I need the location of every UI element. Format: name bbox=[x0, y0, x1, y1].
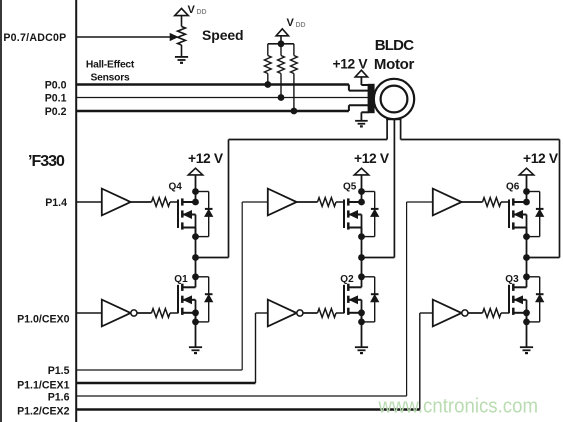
transistor Q5 body arrow bbox=[350, 211, 358, 218]
svg-text:BLDC: BLDC bbox=[375, 37, 414, 54]
node Q2 source junction bbox=[358, 309, 365, 316]
motor connector block bbox=[368, 84, 375, 113]
node Q4 diode join bbox=[192, 233, 199, 240]
wire gate resistor RQ4 to gate bbox=[170, 201, 178, 203]
buffer U2 bbox=[268, 189, 297, 216]
wire inverter U6 output bbox=[468, 312, 483, 314]
body diode of Q1 cathode bar bbox=[205, 293, 213, 295]
transistor Q5 drain stub bbox=[348, 201, 361, 203]
transistor Q5 gate bar bbox=[343, 200, 345, 229]
+12V symbol (bridge of Q5) bbox=[354, 168, 368, 175]
transistor Q2 body stub bbox=[348, 299, 361, 301]
wire P1.2/CEX2 horizontal bbox=[76, 408, 420, 410]
svg-text:Speed: Speed bbox=[202, 27, 244, 43]
node bridge midpoint (Q6/Q3) bbox=[523, 254, 530, 261]
wire P1.1 to inverter U5 bbox=[256, 312, 268, 314]
gate resistor RQ2 bbox=[318, 309, 337, 318]
wire P1.6 to buffer U3 bbox=[407, 201, 433, 203]
node Q5 diode tap bbox=[358, 188, 365, 195]
wire motor phase A drop bbox=[386, 117, 388, 139]
wire to gate resistor RQ3 bbox=[468, 312, 483, 314]
wire midpoint to Q1 drain bbox=[195, 258, 197, 288]
BLDC motor outer circle bbox=[374, 79, 414, 119]
transistor Q6 drain stub bbox=[513, 201, 526, 203]
inverter U5 bbox=[268, 300, 297, 327]
body diode of Q4 vertical bbox=[208, 192, 210, 237]
transistor Q2 gate bar bbox=[343, 285, 345, 314]
wire P0.0 step down bbox=[348, 85, 350, 91]
wire phase C to bridge 3 midpoint bbox=[559, 140, 561, 258]
svg-text:V: V bbox=[188, 4, 196, 16]
wire phase C horizontal bbox=[401, 139, 560, 141]
transistor Q5 channel segments bbox=[347, 198, 350, 205]
node R2/P0.0 bbox=[264, 81, 271, 88]
wire P1.0/CEX0 to inverter U4 bbox=[76, 312, 101, 314]
wire to gate resistor RQ5 bbox=[297, 201, 318, 203]
node Q1 diode join bbox=[192, 319, 199, 326]
wire R2 to P0.0 bbox=[267, 74, 269, 85]
wire gate resistor RQ1 to gate bbox=[170, 312, 178, 314]
svg-text:DD: DD bbox=[296, 22, 306, 29]
transistor Q3 source-side vertical bbox=[526, 300, 528, 322]
transistor Q2 source stub bbox=[348, 312, 361, 314]
MCU 'F330 left border bbox=[0, 0, 2, 422]
svg-text:P1.5: P1.5 bbox=[48, 365, 70, 377]
body diode of Q3 triangle bbox=[536, 295, 544, 302]
+12V symbol (motor) bbox=[355, 70, 367, 77]
body diode of Q5 cathode bar bbox=[371, 208, 379, 210]
wire buffer U3 output bbox=[462, 201, 483, 203]
node Q6 diode join bbox=[523, 233, 530, 240]
wire +12V to Q6 drain bbox=[526, 175, 528, 202]
transistor Q6 channel segments bbox=[512, 198, 515, 205]
node Q1 source junction bbox=[192, 309, 199, 316]
body diode of Q3 top branch bbox=[527, 276, 540, 278]
wire P0.2 step up bbox=[348, 105, 350, 111]
wiper arrowhead bbox=[170, 34, 177, 41]
node bridge midpoint (Q5/Q2) bbox=[358, 254, 365, 261]
buffer U1 bbox=[102, 189, 131, 216]
node Q3 diode join bbox=[523, 319, 530, 326]
wire Q1 source to ground bbox=[195, 313, 197, 347]
body diode of Q2 cathode bar bbox=[371, 293, 379, 295]
wire gate resistor RQ2 to gate bbox=[336, 312, 344, 314]
svg-text:www.cntronics.com: www.cntronics.com bbox=[378, 395, 538, 418]
node R4/P0.2 bbox=[291, 108, 298, 115]
wire Q2 source to ground bbox=[361, 313, 363, 347]
wire +12V to connector bbox=[360, 77, 362, 85]
pull-up bus wire bbox=[268, 43, 294, 45]
wire gate resistor RQ6 to gate bbox=[501, 201, 509, 203]
body diode of Q2 top branch bbox=[362, 276, 375, 278]
inverter U4 bbox=[102, 300, 131, 327]
resistor R2 (P0.0 pull-up) bbox=[264, 56, 271, 74]
wire P1.5 riser bbox=[241, 202, 243, 370]
svg-text:Q1: Q1 bbox=[174, 274, 188, 285]
transistor Q5 body stub bbox=[348, 214, 361, 216]
transistor Q1 source stub bbox=[182, 312, 195, 314]
svg-text:+12 V: +12 V bbox=[523, 151, 559, 166]
wire P1.2 to inverter U6 bbox=[420, 312, 433, 314]
transistor Q5 source stub bbox=[348, 227, 361, 229]
Vdd symbol above speed pot bbox=[175, 8, 189, 15]
svg-text:P0.0: P0.0 bbox=[45, 80, 67, 92]
body diode of Q3 vertical bbox=[539, 277, 541, 322]
body diode of Q2 bottom branch bbox=[362, 321, 375, 323]
node Q6 diode tap bbox=[523, 188, 530, 195]
transistor Q6 body stub bbox=[513, 214, 526, 216]
wire bridge 3 midpoint horizontal bbox=[527, 257, 560, 259]
body diode of Q5 vertical bbox=[374, 192, 376, 237]
wire P0.2 hall sensor C bbox=[76, 110, 349, 112]
wire phase A to bridge 1 midpoint bbox=[228, 140, 230, 258]
wire midpoint to Q2 drain bbox=[361, 258, 363, 288]
body diode of Q6 cathode bar bbox=[536, 208, 544, 210]
svg-text:+12 V: +12 V bbox=[333, 56, 369, 71]
transistor Q2 drain stub bbox=[348, 286, 361, 288]
wire P1.1 riser bbox=[255, 313, 257, 383]
ground (speed pot) bbox=[175, 56, 188, 58]
potentiometer R1 (speed) bbox=[178, 27, 186, 46]
wire gate resistor RQ3 to gate bbox=[501, 312, 509, 314]
wire P1.4 to buffer U1 bbox=[76, 201, 101, 203]
resistor R3 (P0.1 pull-up) bbox=[278, 56, 285, 74]
transistor Q6 gate bar bbox=[508, 200, 510, 229]
node Vdd pull-up junction bbox=[278, 40, 285, 47]
buffer U3 bbox=[433, 189, 462, 216]
transistor Q4 body stub bbox=[182, 214, 195, 216]
transistor Q1 body stub bbox=[182, 299, 195, 301]
wire midpoint to Q3 drain bbox=[526, 258, 528, 288]
wire to resistor R4 bbox=[293, 44, 295, 56]
+12V symbol (bridge of Q4) bbox=[188, 168, 202, 175]
transistor Q4 gate bar bbox=[177, 200, 179, 229]
wire to gate resistor RQ6 bbox=[462, 201, 483, 203]
transistor Q4 source stub bbox=[182, 227, 195, 229]
transistor Q4 channel segments bbox=[181, 198, 184, 205]
gate resistor RQ3 bbox=[483, 309, 502, 318]
body diode of Q4 top branch bbox=[196, 191, 209, 193]
transistor Q1 gate bar bbox=[177, 285, 179, 314]
svg-text:V: V bbox=[287, 17, 295, 29]
body diode of Q4 triangle bbox=[205, 210, 213, 217]
svg-text:Hall-Effect: Hall-Effect bbox=[86, 59, 135, 70]
wire gate resistor RQ5 to gate bbox=[336, 201, 344, 203]
inverter U6 bbox=[433, 300, 462, 327]
body diode of Q2 triangle bbox=[371, 295, 379, 302]
svg-text:Motor: Motor bbox=[374, 56, 415, 73]
transistor Q2 channel segments bbox=[347, 284, 350, 291]
body diode of Q6 top branch bbox=[527, 191, 540, 193]
MCU 'F330 right border bbox=[75, 0, 77, 422]
node Q5 diode join bbox=[358, 233, 365, 240]
transistor Q1 drain stub bbox=[182, 286, 195, 288]
svg-text:P1.4: P1.4 bbox=[45, 197, 67, 209]
transistor Q1 body arrow bbox=[184, 296, 192, 303]
body diode of Q5 bottom branch bbox=[362, 236, 375, 238]
node Q2 diode tap bbox=[358, 273, 365, 280]
svg-text:P0.1: P0.1 bbox=[45, 93, 67, 105]
node Q5 drain junction bbox=[358, 199, 365, 206]
svg-text:+12 V: +12 V bbox=[188, 151, 224, 166]
wire phase A horizontal bbox=[229, 139, 388, 141]
wire inverter U4 output bbox=[137, 312, 152, 314]
transistor Q2 source-side vertical bbox=[361, 300, 363, 322]
motor neck chord bbox=[386, 118, 401, 120]
svg-text:Q6: Q6 bbox=[506, 182, 520, 193]
wire R4 to P0.2 bbox=[293, 74, 295, 112]
node bridge midpoint (Q4/Q1) bbox=[192, 254, 199, 261]
body diode of Q3 bottom branch bbox=[527, 321, 540, 323]
wire to gate resistor RQ4 bbox=[131, 201, 152, 203]
body diode of Q1 bottom branch bbox=[196, 321, 209, 323]
body diode of Q5 top branch bbox=[362, 191, 375, 193]
transistor Q6 source stub bbox=[513, 227, 526, 229]
body diode of Q1 triangle bbox=[205, 295, 213, 302]
wire bridge 1 midpoint horizontal bbox=[196, 257, 229, 259]
transistor Q1 channel segments bbox=[181, 284, 184, 291]
resistor R4 (P0.2 pull-up) bbox=[291, 56, 298, 74]
wire P0.2 into connector bbox=[349, 104, 369, 106]
svg-text:+12 V: +12 V bbox=[354, 151, 390, 166]
svg-text:Sensors: Sensors bbox=[91, 73, 130, 84]
svg-text:Q5: Q5 bbox=[343, 182, 357, 193]
ground (Q1 source) bbox=[189, 346, 202, 348]
body diode of Q6 bottom branch bbox=[527, 236, 540, 238]
wire Q5 source to midpoint bbox=[361, 228, 363, 258]
transistor Q4 source-side vertical bbox=[195, 215, 197, 237]
Vdd symbol above pull-ups bbox=[276, 29, 288, 36]
svg-text:P0.2: P0.2 bbox=[45, 106, 67, 118]
gate resistor RQ6 bbox=[483, 198, 502, 207]
wire to resistor R2 bbox=[267, 44, 269, 56]
body diode of Q6 triangle bbox=[536, 210, 544, 217]
wire Vdd to potentiometer bbox=[181, 16, 183, 27]
svg-text:P1.6: P1.6 bbox=[48, 392, 70, 404]
wire +12V to Q4 drain bbox=[195, 175, 197, 202]
transistor Q4 body arrow bbox=[184, 211, 192, 218]
svg-text:’F330: ’F330 bbox=[28, 153, 65, 170]
wire to gate resistor RQ2 bbox=[303, 312, 318, 314]
+12V symbol (bridge of Q6) bbox=[519, 168, 533, 175]
transistor Q3 gate bar bbox=[508, 285, 510, 314]
svg-text:Q4: Q4 bbox=[169, 182, 183, 193]
wire Q4 source to midpoint bbox=[195, 228, 197, 258]
BLDC motor inner circle bbox=[381, 86, 408, 113]
wire P1.6 horizontal bbox=[76, 395, 406, 397]
transistor Q6 body arrow bbox=[515, 211, 523, 218]
transistor Q3 channel segments bbox=[512, 284, 515, 291]
wire P0.0 into connector bbox=[349, 90, 369, 92]
node Q4 drain junction bbox=[192, 199, 199, 206]
wire buffer U2 output bbox=[297, 201, 318, 203]
wire motor phase C drop bbox=[400, 117, 402, 139]
ground (motor) bbox=[355, 120, 368, 122]
wire P0.1 hall sensor B bbox=[76, 97, 368, 99]
body diode of Q2 vertical bbox=[374, 277, 376, 322]
wire Vdd to pull-up bus bbox=[280, 36, 282, 44]
body diode of Q4 bottom branch bbox=[196, 236, 209, 238]
gate resistor RQ5 bbox=[318, 198, 337, 207]
node Q4 diode tap bbox=[192, 188, 199, 195]
wire P1.6 riser bbox=[406, 202, 408, 396]
node Q2 diode join bbox=[358, 319, 365, 326]
gate resistor RQ4 bbox=[152, 198, 171, 207]
wire P1.1/CEX1 horizontal bbox=[76, 382, 255, 384]
wire potentiometer to ground bbox=[181, 45, 183, 57]
transistor Q3 body stub bbox=[513, 299, 526, 301]
wire P1.2 riser bbox=[419, 313, 421, 410]
transistor Q3 body arrow bbox=[515, 296, 523, 303]
node Q3 source junction bbox=[523, 309, 530, 316]
wire +12V to Q5 drain bbox=[361, 175, 363, 202]
wire to resistor R3 bbox=[280, 44, 282, 56]
transistor Q3 source stub bbox=[513, 312, 526, 314]
transistor Q3 drain stub bbox=[513, 286, 526, 288]
wire R3 to P0.1 bbox=[280, 74, 282, 98]
svg-text:Q2: Q2 bbox=[340, 274, 354, 285]
transistor Q2 body arrow bbox=[350, 296, 358, 303]
wire Q3 source to ground bbox=[526, 313, 528, 347]
body diode of Q1 vertical bbox=[208, 277, 210, 322]
wire P0.0 hall sensor A bbox=[76, 83, 349, 85]
transistor Q5 source-side vertical bbox=[361, 215, 363, 237]
wire buffer U1 output bbox=[131, 201, 152, 203]
svg-text:P1.0/CEX0: P1.0/CEX0 bbox=[17, 314, 70, 326]
body diode of Q3 cathode bar bbox=[536, 293, 544, 295]
body diode of Q5 triangle bbox=[371, 210, 379, 217]
wire bridge 2 midpoint horizontal bbox=[362, 257, 395, 259]
svg-text:P0.7/ADC0P: P0.7/ADC0P bbox=[3, 32, 66, 44]
body diode of Q1 top branch bbox=[196, 276, 209, 278]
gate resistor RQ1 bbox=[152, 309, 171, 318]
svg-text:DD: DD bbox=[197, 9, 207, 16]
body diode of Q4 cathode bar bbox=[205, 208, 213, 210]
wire P0.7 to speed pot wiper bbox=[76, 36, 171, 38]
wire inverter U5 output bbox=[303, 312, 318, 314]
transistor Q4 drain stub bbox=[182, 201, 195, 203]
ground (Q3 source) bbox=[520, 346, 533, 348]
transistor Q6 source-side vertical bbox=[526, 215, 528, 237]
node Q6 drain junction bbox=[523, 199, 530, 206]
svg-text:Q3: Q3 bbox=[505, 274, 519, 285]
ground (Q2 source) bbox=[355, 346, 368, 348]
wire P1.5 to buffer U2 bbox=[242, 201, 267, 203]
node Q3 diode tap bbox=[523, 273, 530, 280]
wire motor phase B drop bbox=[393, 119, 395, 258]
transistor Q1 source-side vertical bbox=[195, 300, 197, 322]
svg-text:P1.1/CEX1: P1.1/CEX1 bbox=[17, 379, 70, 391]
wire Q6 source to midpoint bbox=[526, 228, 528, 258]
node R3/P0.1 bbox=[278, 94, 285, 101]
svg-text:P1.2/CEX2: P1.2/CEX2 bbox=[17, 406, 70, 418]
wire connector to motor ground bbox=[361, 111, 368, 113]
wire P1.5 horizontal bbox=[76, 369, 242, 371]
wire to gate resistor RQ1 bbox=[137, 312, 152, 314]
node Q1 diode tap bbox=[192, 273, 199, 280]
body diode of Q6 vertical bbox=[539, 192, 541, 237]
